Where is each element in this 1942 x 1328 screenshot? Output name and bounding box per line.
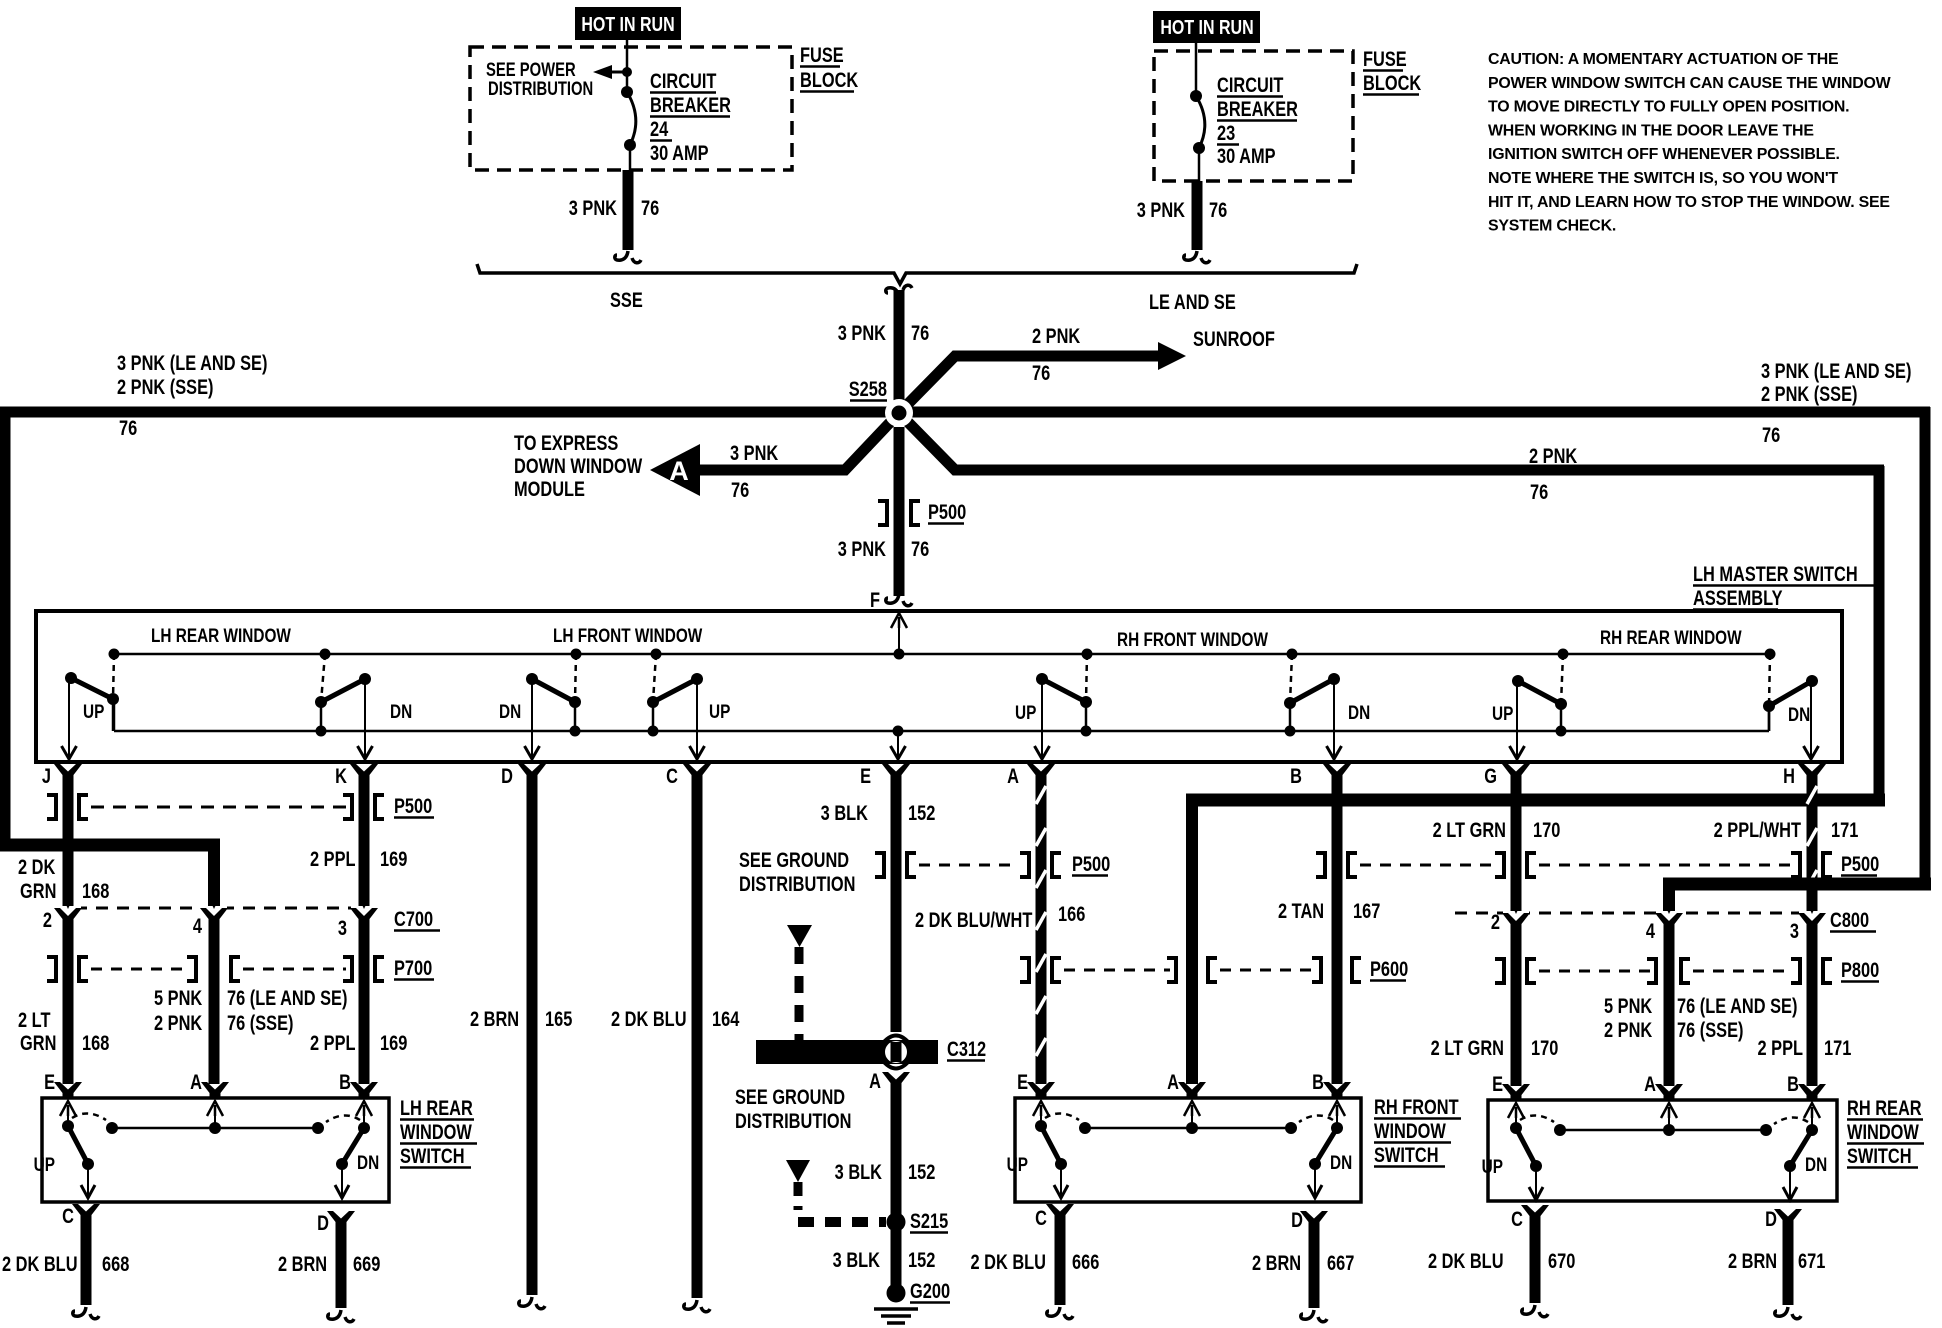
svg-text:IGNITION SWITCH OFF WHENEVER P: IGNITION SWITCH OFF WHENEVER POSSIBLE.	[1488, 146, 1840, 163]
svg-text:A: A	[190, 1070, 202, 1093]
RH front switch pin D terminal	[1291, 1208, 1328, 1231]
svg-text:RH FRONT: RH FRONT	[1374, 1095, 1459, 1118]
label P800	[1841, 958, 1879, 981]
label 3 PNK 76 (below P500)	[838, 537, 929, 560]
switch arm RH rear UP	[1510, 649, 1569, 760]
label 2 PPL 169 (upper K wire)	[310, 847, 407, 870]
svg-text:NOTE WHERE THE SWITCH IS, SO Y: NOTE WHERE THE SWITCH IS, SO YOU WON'T	[1488, 170, 1838, 187]
connector C800	[1455, 902, 1826, 929]
wire branch 2 PNK to right (inner)	[899, 413, 1884, 470]
wire right outer vertical down	[1920, 407, 1931, 884]
LH rear switch contact row	[106, 1114, 324, 1134]
label FUSE BLOCK (right)	[1363, 47, 1422, 94]
svg-text:24: 24	[650, 117, 669, 140]
svg-text:SYSTEM CHECK.: SYSTEM CHECK.	[1488, 218, 1616, 235]
wire pin 2 C700 to LH rear switch E	[63, 916, 74, 1084]
svg-text:P500: P500	[394, 794, 432, 817]
svg-text:RH REAR: RH REAR	[1847, 1096, 1922, 1119]
wire 2 BRN 165 (master pin D down)	[519, 778, 545, 1309]
svg-text:2: 2	[43, 908, 52, 931]
switch arm LH rear UP	[62, 649, 120, 760]
LH rear window switch box	[42, 1098, 389, 1202]
wire branch to sunroof	[899, 342, 1186, 413]
connector P500 (main feed)	[878, 501, 920, 525]
svg-text:3 BLK: 3 BLK	[833, 1248, 881, 1271]
label DN (RH rear DN)	[1788, 703, 1810, 725]
svg-text:3 BLK: 3 BLK	[835, 1160, 883, 1183]
RH rear switch contact row	[1554, 1116, 1772, 1136]
RH front switch pin A entry	[1167, 1070, 1206, 1116]
svg-text:DN: DN	[499, 700, 521, 722]
svg-text:C: C	[1511, 1207, 1523, 1230]
master common bus (lower)	[114, 699, 1769, 731]
ground symbol tap (lower)	[786, 1160, 886, 1222]
connector P800	[1495, 959, 1832, 983]
RH rear switch pin D terminal	[1765, 1207, 1802, 1230]
svg-text:2 DK BLU/WHT: 2 DK BLU/WHT	[915, 908, 1033, 931]
svg-text:168: 168	[82, 1031, 109, 1054]
label RH REAR WINDOW (master)	[1600, 626, 1742, 648]
svg-text:SEE GROUND: SEE GROUND	[735, 1085, 845, 1108]
wire 2 DK BLU 666	[1047, 1218, 1073, 1319]
wire 3 BLK 152 (S215 to G200)	[891, 1222, 902, 1292]
RH front switch UP arm	[1035, 1113, 1079, 1198]
splice S215	[887, 1213, 906, 1232]
master pin J terminal	[42, 764, 82, 787]
label 2 PPL 169 (lower K wire)	[310, 1031, 407, 1054]
svg-text:C: C	[1035, 1206, 1047, 1229]
svg-text:B: B	[339, 1070, 351, 1093]
svg-text:SEE GROUND: SEE GROUND	[739, 848, 849, 871]
power label HOT IN RUN (left fuse block)	[575, 7, 681, 40]
svg-text:HOT IN RUN: HOT IN RUN	[1160, 16, 1253, 38]
wire 2 PPL 169 C700 pin 3 to LH rear switch B	[359, 916, 370, 1084]
svg-text:2 PNK: 2 PNK	[1529, 444, 1578, 467]
ground G200	[874, 1284, 918, 1324]
connector P500 (E wire)	[875, 853, 1016, 877]
label UP (LH front UP)	[709, 700, 731, 722]
svg-text:B: B	[1290, 764, 1302, 787]
svg-text:GRN: GRN	[20, 879, 56, 902]
svg-text:668: 668	[102, 1252, 129, 1275]
svg-text:667: 667	[1327, 1251, 1354, 1274]
switch arm RH front UP	[1035, 649, 1093, 760]
wire branch to express down window module (arrow A)	[650, 413, 899, 496]
svg-text:76: 76	[731, 478, 749, 501]
svg-text:671: 671	[1798, 1249, 1825, 1272]
circuit breaker 24	[621, 86, 636, 172]
svg-text:P500: P500	[1072, 852, 1110, 875]
svg-text:3 PNK: 3 PNK	[838, 537, 887, 560]
svg-text:UP: UP	[1492, 702, 1514, 724]
master pin E terminal	[860, 764, 910, 787]
svg-text:DN: DN	[1330, 1151, 1352, 1173]
label UP (RH front UP)	[1015, 701, 1037, 723]
svg-text:DN: DN	[357, 1151, 379, 1173]
master pin D terminal	[501, 764, 546, 787]
svg-text:G200: G200	[910, 1279, 950, 1302]
svg-text:669: 669	[353, 1252, 380, 1275]
wire 2 DK BLU 670	[1522, 1219, 1548, 1317]
svg-text:2 PNK (SSE): 2 PNK (SSE)	[1761, 382, 1857, 405]
label C800 pins 2 4 3	[1491, 910, 1799, 942]
label LH REAR WINDOW SWITCH	[400, 1096, 477, 1167]
svg-text:171: 171	[1824, 1036, 1851, 1059]
svg-text:2 PNK: 2 PNK	[1604, 1018, 1653, 1041]
svg-text:2 BRN: 2 BRN	[1728, 1249, 1777, 1272]
master pin H terminal	[1783, 764, 1826, 787]
svg-text:SSE: SSE	[610, 288, 643, 311]
svg-text:RH FRONT WINDOW: RH FRONT WINDOW	[1117, 628, 1268, 650]
svg-text:C: C	[666, 764, 678, 787]
C312 pin A cup	[869, 1069, 910, 1092]
svg-text:CAUTION: A MOMENTARY ACTUATIO: CAUTION: A MOMENTARY ACTUATION OF THE	[1488, 51, 1838, 68]
label 2 PPL 171 (lower)	[1757, 1036, 1851, 1059]
wire 3 BLK 152 (C312 to S215)	[891, 1084, 902, 1222]
svg-text:WINDOW: WINDOW	[1847, 1120, 1919, 1143]
svg-text:TO EXPRESS: TO EXPRESS	[514, 431, 618, 454]
svg-text:UP: UP	[709, 700, 731, 722]
svg-text:D: D	[317, 1211, 329, 1234]
label 2 BRN 671	[1728, 1249, 1825, 1272]
LH rear switch pin B entry	[339, 1070, 378, 1116]
wire 2 TAN 167 (master B to RH front switch B)	[1332, 778, 1343, 1084]
connector P500 (B/G/H wires)	[1316, 853, 1832, 877]
RH rear switch pin B entry	[1787, 1072, 1826, 1118]
svg-text:J: J	[42, 764, 51, 787]
label 2 LT GRN 168 (lower J wire)	[18, 1008, 109, 1054]
svg-text:B: B	[1787, 1072, 1799, 1095]
wire 2 DK BLU 164 (master pin C down)	[684, 778, 710, 1312]
svg-text:A: A	[1167, 1070, 1179, 1093]
power label HOT IN RUN (right fuse block)	[1153, 11, 1260, 43]
master pin A terminal	[1007, 764, 1055, 787]
svg-text:30 AMP: 30 AMP	[650, 141, 709, 164]
wire left edge vertical down	[0, 407, 11, 845]
splice S258	[885, 399, 913, 427]
LH rear switch DN arm	[326, 1114, 370, 1198]
label UP (LH rear switch)	[34, 1153, 56, 1175]
label C700	[394, 907, 440, 930]
svg-text:E: E	[860, 764, 871, 787]
RH front switch pin E entry	[1017, 1070, 1055, 1116]
svg-text:MODULE: MODULE	[514, 477, 585, 500]
svg-text:K: K	[335, 764, 347, 787]
wire 2 PNK feed bar to RH front switch A	[1186, 800, 1885, 1084]
svg-text:SWITCH: SWITCH	[1847, 1144, 1912, 1167]
wire 2 DK BLU/WHT 166 striped (master A to RH front switch E)	[1036, 778, 1046, 1084]
label 2 TAN 167	[1278, 899, 1380, 922]
svg-text:UP: UP	[1482, 1155, 1504, 1177]
svg-text:TO MOVE DIRECTLY TO FULLY OPEN: TO MOVE DIRECTLY TO FULLY OPEN POSITION.	[1488, 99, 1849, 116]
RH front switch pin B entry	[1312, 1070, 1351, 1116]
svg-text:HOT IN RUN: HOT IN RUN	[581, 13, 674, 35]
svg-text:DOWN WINDOW: DOWN WINDOW	[514, 454, 642, 477]
svg-text:3 PNK (LE AND SE): 3 PNK (LE AND SE)	[117, 351, 267, 374]
wire 2 LT GRN 170 (master G to C800 pin 2)	[1511, 778, 1522, 911]
fuse block 2 dashed enclosure	[1154, 51, 1353, 181]
svg-text:169: 169	[380, 847, 407, 870]
label RH REAR WINDOW SWITCH	[1847, 1096, 1924, 1167]
svg-text:WHEN WORKING IN THE DOOR LEAVE: WHEN WORKING IN THE DOOR LEAVE THE	[1488, 122, 1814, 139]
svg-text:E: E	[44, 1070, 55, 1093]
svg-text:30 AMP: 30 AMP	[1217, 144, 1276, 167]
svg-text:152: 152	[908, 1248, 935, 1271]
label 3 BLK 152 (lower)	[833, 1248, 936, 1271]
svg-text:2 BRN: 2 BRN	[470, 1007, 519, 1030]
label 76 (LE AND SE) / 76 (SSE) (right feed)	[1677, 994, 1797, 1041]
label RH FRONT WINDOW SWITCH	[1374, 1095, 1461, 1166]
switch arm RH front DN	[1284, 649, 1342, 760]
svg-text:3 BLK: 3 BLK	[821, 801, 869, 824]
label 3 BLK 152 (upper)	[821, 801, 936, 824]
svg-text:DISTRIBUTION: DISTRIBUTION	[739, 872, 855, 895]
label CIRCUIT BREAKER 23 30 AMP	[1217, 73, 1298, 167]
svg-text:670: 670	[1548, 1249, 1575, 1272]
svg-text:3 PNK: 3 PNK	[569, 196, 618, 219]
svg-text:2 DK BLU: 2 DK BLU	[2, 1252, 78, 1275]
RH rear switch pin C terminal	[1511, 1205, 1549, 1230]
wire 2 PPL 169 (pin K to C700 pin 3)	[359, 778, 370, 906]
svg-text:P600: P600	[1370, 957, 1408, 980]
label 5 PNK / 2 PNK (left feed)	[154, 986, 203, 1034]
wire 2 PPL 171 C800 pin 3 to RH rear switch B	[1807, 921, 1818, 1086]
connector P600	[1020, 958, 1361, 982]
connector P500 (A wire)	[1020, 853, 1061, 877]
pin F entry arrow	[891, 613, 907, 654]
svg-text:2 PPL: 2 PPL	[310, 1031, 356, 1054]
svg-text:A: A	[869, 1069, 881, 1092]
wire 3PNK/2PNK to left edge	[0, 407, 910, 418]
label 2 BRN 165	[470, 1007, 572, 1030]
svg-text:C312: C312	[947, 1037, 986, 1060]
svg-text:LH MASTER SWITCH: LH MASTER SWITCH	[1693, 562, 1858, 585]
svg-text:BREAKER: BREAKER	[650, 93, 731, 116]
RH front window switch box	[1015, 1098, 1361, 1202]
wire right inner vertical down to feed bar	[1874, 466, 1885, 800]
svg-text:2 DK BLU: 2 DK BLU	[611, 1007, 687, 1030]
label FUSE BLOCK (left)	[800, 43, 859, 91]
svg-text:P700: P700	[394, 956, 432, 979]
label TO EXPRESS DOWN WINDOW MODULE	[514, 431, 642, 500]
LH rear switch pin D terminal	[317, 1211, 355, 1234]
svg-text:2 LT GRN: 2 LT GRN	[1431, 1036, 1504, 1059]
svg-text:76 (LE AND SE): 76 (LE AND SE)	[227, 986, 347, 1009]
switch arm LH front DN	[525, 649, 582, 760]
svg-text:168: 168	[82, 879, 109, 902]
svg-text:SWITCH: SWITCH	[1374, 1143, 1439, 1166]
svg-text:G: G	[1484, 764, 1497, 787]
label 3 PNK 76 (breaker 24 wire)	[569, 196, 659, 219]
switch arm LH front UP	[647, 649, 705, 760]
ground symbol tap (upper)	[787, 925, 812, 1040]
svg-text:BLOCK: BLOCK	[800, 68, 859, 91]
svg-text:2 TAN: 2 TAN	[1278, 899, 1324, 922]
svg-text:164: 164	[712, 1007, 740, 1030]
wire 2 BRN 669	[328, 1225, 354, 1322]
svg-text:4: 4	[1646, 919, 1656, 942]
svg-text:UP: UP	[1007, 1153, 1029, 1175]
circuit breaker 23	[1190, 90, 1205, 183]
label 2 PNK 76 (sunroof wire)	[1032, 324, 1081, 384]
svg-text:152: 152	[908, 801, 935, 824]
wire from HOT IN RUN into breaker 24	[626, 40, 629, 92]
LH rear switch pin A entry	[190, 1070, 229, 1116]
svg-text:76: 76	[1032, 361, 1050, 384]
label 2 BRN 667	[1252, 1251, 1354, 1274]
label UP (LH rear UP)	[83, 700, 105, 722]
label P500 (main feed)	[928, 500, 966, 523]
label 3 PNK 76 (breaker 23 wire)	[1137, 198, 1227, 221]
svg-text:2 BRN: 2 BRN	[1252, 1251, 1301, 1274]
svg-text:76: 76	[1530, 480, 1548, 503]
svg-text:4: 4	[193, 914, 203, 937]
wire 3PNK/2PNK to right edge	[899, 407, 1930, 418]
fuse block 1 dashed enclosure	[470, 47, 792, 170]
svg-text:S215: S215	[910, 1209, 948, 1232]
svg-text:76 (SSE): 76 (SSE)	[227, 1011, 293, 1034]
svg-text:3 PNK: 3 PNK	[1137, 198, 1186, 221]
switch arm LH rear DN	[315, 649, 373, 760]
svg-text:DISTRIBUTION: DISTRIBUTION	[735, 1109, 851, 1132]
label LE AND SE	[1149, 290, 1236, 313]
svg-text:UP: UP	[34, 1153, 56, 1175]
svg-text:FUSE: FUSE	[1363, 47, 1407, 70]
svg-text:E: E	[1017, 1070, 1028, 1093]
label 76 left	[119, 416, 137, 439]
svg-text:166: 166	[1058, 902, 1085, 925]
wire 3 PNK 76 from P500 to master switch pin F	[886, 427, 912, 606]
svg-text:A: A	[669, 456, 689, 486]
svg-text:23: 23	[1217, 121, 1235, 144]
LH rear switch UP arm	[62, 1113, 106, 1198]
svg-text:LH FRONT WINDOW: LH FRONT WINDOW	[553, 624, 703, 646]
svg-text:BREAKER: BREAKER	[1217, 97, 1298, 120]
connector P500 (left, J/K wires)	[47, 795, 384, 819]
svg-text:76: 76	[119, 416, 137, 439]
svg-text:167: 167	[1353, 899, 1380, 922]
master feed bus (top)	[114, 653, 1770, 656]
label DN (LH rear switch)	[357, 1151, 379, 1173]
svg-text:2 PPL: 2 PPL	[310, 847, 356, 870]
label SEE GROUND DISTRIBUTION (lower)	[735, 1085, 851, 1132]
label 2 DK GRN 168 (upper J wire)	[18, 855, 109, 902]
svg-text:A: A	[1007, 764, 1019, 787]
svg-text:3 PNK: 3 PNK	[838, 321, 887, 344]
label C800	[1830, 908, 1876, 931]
wire 3 BLK 152 (master pin E to C312)	[891, 778, 902, 1032]
label UP (RH rear switch)	[1482, 1155, 1504, 1177]
svg-text:3: 3	[338, 916, 347, 939]
svg-text:C: C	[62, 1204, 74, 1227]
svg-text:FUSE: FUSE	[800, 43, 844, 66]
label UP (RH rear UP)	[1492, 702, 1514, 724]
svg-text:P500: P500	[928, 500, 966, 523]
svg-text:E: E	[1492, 1072, 1503, 1095]
svg-text:2: 2	[1491, 910, 1500, 933]
svg-text:POWER WINDOW SWITCH CAN CAUSE: POWER WINDOW SWITCH CAN CAUSE THE WINDOW	[1488, 75, 1891, 92]
label S258	[849, 377, 887, 400]
label S215	[910, 1209, 948, 1232]
svg-text:B: B	[1312, 1070, 1324, 1093]
svg-text:5 PNK: 5 PNK	[1604, 994, 1653, 1017]
svg-text:DN: DN	[1788, 703, 1810, 725]
label P500 (right)	[1841, 852, 1879, 875]
label P700	[394, 956, 434, 979]
label 2 PNK 76 (right inner wire)	[1529, 444, 1578, 503]
svg-text:165: 165	[545, 1007, 572, 1030]
label 76 (LE AND SE) / 76 (SSE) (left feed)	[227, 986, 347, 1034]
connector C700	[54, 897, 378, 924]
RH rear window switch box	[1488, 1100, 1837, 1201]
svg-text:SUNROOF: SUNROOF	[1193, 327, 1275, 350]
svg-text:WINDOW: WINDOW	[1374, 1119, 1446, 1142]
caution note text block	[1488, 51, 1891, 235]
connector P700	[47, 957, 384, 981]
svg-text:LE AND SE: LE AND SE	[1149, 290, 1236, 313]
wire 2 BRN 667	[1301, 1225, 1327, 1322]
wire 5PNK/2PNK 76 C800 pin 4 to RH rear switch A	[1664, 921, 1675, 1086]
svg-text:170: 170	[1533, 818, 1560, 841]
label LH REAR WINDOW (master)	[151, 624, 291, 646]
LH rear switch pin C terminal	[62, 1204, 100, 1227]
svg-text:A: A	[1644, 1072, 1656, 1095]
RH rear switch UP arm	[1510, 1115, 1554, 1200]
wire 3 PNK 76 from breaker 24	[615, 170, 641, 263]
svg-text:UP: UP	[83, 700, 105, 722]
svg-text:2 DK BLU: 2 DK BLU	[1428, 1249, 1504, 1272]
svg-text:S258: S258	[849, 377, 887, 400]
label DN (RH rear switch)	[1805, 1153, 1827, 1175]
svg-text:2 PPL/WHT: 2 PPL/WHT	[1714, 818, 1802, 841]
svg-text:2 PNK: 2 PNK	[154, 1011, 203, 1034]
label DN (RH front DN)	[1348, 701, 1370, 723]
svg-text:5 PNK: 5 PNK	[154, 986, 203, 1009]
label 2 DK BLU 670	[1428, 1249, 1575, 1272]
svg-text:P500: P500	[1841, 852, 1879, 875]
master pin B terminal	[1290, 764, 1351, 787]
label DN (RH front switch)	[1330, 1151, 1352, 1173]
svg-text:76 (SSE): 76 (SSE)	[1677, 1018, 1743, 1041]
label LH FRONT WINDOW (master)	[553, 624, 703, 646]
svg-text:C800: C800	[1830, 908, 1869, 931]
svg-text:ASSEMBLY: ASSEMBLY	[1693, 586, 1783, 609]
svg-text:2 DK BLU: 2 DK BLU	[970, 1250, 1046, 1273]
svg-text:UP: UP	[1015, 701, 1037, 723]
label 3 PNK 76 (above S258)	[838, 321, 929, 344]
svg-text:CIRCUIT: CIRCUIT	[650, 69, 717, 92]
see power distribution tap with arrow	[486, 59, 632, 99]
svg-text:BLOCK: BLOCK	[1363, 71, 1422, 94]
svg-text:2 PPL: 2 PPL	[1757, 1036, 1803, 1059]
switch arm RH rear DN	[1763, 649, 1819, 760]
label SUNROOF	[1193, 327, 1275, 350]
svg-text:H: H	[1783, 764, 1795, 787]
label 5 PNK / 2 PNK (right feed)	[1604, 994, 1653, 1041]
svg-text:DN: DN	[1805, 1153, 1827, 1175]
svg-text:HIT IT, AND LEARN HOW TO STOP: HIT IT, AND LEARN HOW TO STOP THE WINDOW…	[1488, 194, 1890, 211]
label SSE	[610, 288, 643, 311]
label 3 PNK (LE AND SE) / 2 PNK (SSE) right	[1761, 359, 1911, 405]
master pin K terminal	[335, 764, 378, 787]
label RH FRONT WINDOW (master)	[1117, 628, 1268, 650]
RH front switch contact row	[1079, 1114, 1297, 1134]
wire feed from right edge to C800 pin 4	[1663, 879, 1931, 911]
label 2 LT GRN 170 (lower)	[1431, 1036, 1559, 1059]
svg-text:76 (LE AND SE): 76 (LE AND SE)	[1677, 994, 1797, 1017]
label DN (LH rear DN)	[390, 700, 412, 722]
wire 2 DK BLU 668	[73, 1218, 99, 1319]
